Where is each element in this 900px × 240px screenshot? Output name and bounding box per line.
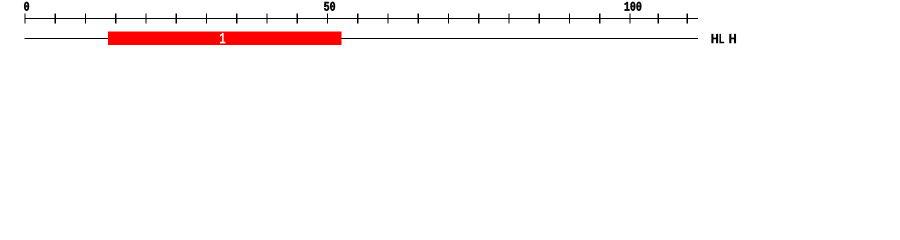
ruler tick 30 xyxy=(206,13,207,23)
ruler tick 35 xyxy=(236,13,237,23)
ruler tick 55 xyxy=(357,13,358,23)
domain name HLH xyxy=(711,34,736,43)
ruler tick 10 xyxy=(85,13,86,23)
ruler tick 60 xyxy=(387,13,388,23)
ruler tick 80 xyxy=(508,13,509,23)
background xyxy=(0,0,900,58)
domain box 1 (HLH) xyxy=(108,31,341,45)
ruler tick 95 xyxy=(599,13,600,23)
ruler tick 75 xyxy=(478,13,479,23)
ruler tick 90 xyxy=(569,13,570,23)
ruler label 50 xyxy=(324,2,335,11)
ruler tick 5 xyxy=(55,13,56,23)
sequence line xyxy=(25,38,699,39)
ruler label 0 xyxy=(24,2,29,11)
ruler tick 50 xyxy=(327,13,328,23)
ruler tick 85 xyxy=(539,13,540,23)
ruler tick 40 xyxy=(266,13,267,23)
ruler tick 110 xyxy=(687,13,688,23)
ruler tick 25 xyxy=(176,13,177,23)
ruler tick 105 xyxy=(658,13,659,23)
ruler tick 20 xyxy=(145,13,146,23)
ruler line xyxy=(25,18,699,19)
ruler tick 100 xyxy=(629,13,630,23)
ruler tick 70 xyxy=(448,13,449,23)
ruler tick 45 xyxy=(297,13,298,23)
domain number 1 xyxy=(220,33,225,44)
ruler tick 65 xyxy=(418,13,419,23)
ruler label 100 xyxy=(625,2,642,11)
ruler tick 0 xyxy=(24,13,25,23)
ruler tick 15 xyxy=(115,13,116,23)
